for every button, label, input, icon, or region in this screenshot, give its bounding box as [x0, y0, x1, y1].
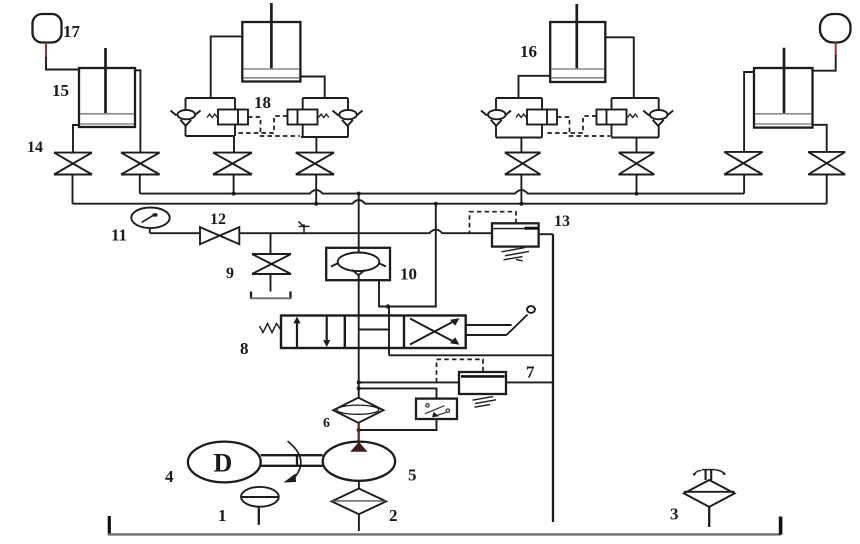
node junctions on main line — [357, 380, 361, 384]
gauge 11 needle — [142, 215, 154, 222]
wire leg 18R — [315, 137, 317, 153]
wire pressure switch top branch — [359, 388, 437, 398]
valve 8 spring — [260, 324, 282, 333]
valve below 16L (shut-off) — [505, 153, 541, 175]
wire 18R leg crossing upper manifold to lower manifold — [315, 175, 317, 204]
wire below 14b — [139, 175, 141, 194]
wire cylinder right port to 18R — [300, 77, 324, 99]
svg-text:2: 2 — [389, 506, 398, 525]
cylinder 16 piston rod — [575, 4, 578, 69]
tank bottom — [108, 533, 781, 535]
wire right cylinder left port — [744, 72, 754, 152]
wire gauge stem — [149, 228, 151, 233]
cylinder 15 piston — [80, 113, 134, 115]
valve below right cylinder left (shut-off) — [724, 152, 762, 175]
cylinder 15 piston rod — [104, 48, 107, 114]
node junction on bypass jog — [386, 304, 390, 308]
valve 8 lever — [466, 315, 528, 336]
wire upper manifold (rod-side) with jump-overs at x=316 and x=521 — [140, 190, 744, 194]
svg-text:17: 17 — [63, 22, 81, 41]
relief valve 7 box — [459, 372, 506, 394]
right cylinder piston — [755, 113, 812, 115]
wire cylinder left port to 18L — [211, 36, 243, 98]
valve 8 right cell crossed arrows — [410, 319, 456, 345]
accumulator (top right) — [820, 14, 851, 43]
counterbalance assembly 18 right: frame — [301, 98, 348, 137]
svg-text:16: 16 — [520, 42, 537, 61]
shaft motor-pump — [261, 455, 323, 466]
valve 8 centre cell connector — [359, 329, 389, 331]
svg-text:D: D — [214, 449, 233, 478]
wire below 14a — [72, 175, 74, 204]
wire stem of 1 — [258, 507, 260, 525]
throttle valve 18L box — [218, 110, 248, 125]
wire 16L leg crossing upper manifold to lower manifold — [520, 175, 522, 204]
cylinder 15 — [79, 68, 135, 127]
valve 14a (shut-off) — [54, 153, 92, 175]
svg-text:15: 15 — [52, 81, 69, 100]
wire leg 16R — [636, 138, 638, 153]
cylinder (top right) — [754, 68, 813, 128]
tank symbol below 9 — [251, 292, 291, 299]
suction filter 2 — [332, 489, 386, 515]
svg-text:12: 12 — [210, 211, 226, 228]
check valve 10 box — [326, 248, 390, 280]
wire cylinder 16 right port — [605, 37, 634, 98]
throttle valve 16R box — [597, 110, 627, 125]
svg-text:3: 3 — [670, 505, 679, 524]
check valve 16L — [481, 111, 511, 116]
wire filter 6 to pump 5 — [358, 423, 360, 443]
cylinder 16 piston — [551, 68, 604, 70]
check valve 18L — [171, 111, 201, 116]
svg-text:18: 18 — [254, 93, 271, 112]
pressure switch box — [416, 399, 457, 419]
counterbalance assembly 16 right: frame — [612, 98, 659, 138]
cylinder (above 18) — [242, 22, 300, 82]
tank right wall — [779, 517, 783, 535]
pump 5 — [323, 442, 395, 481]
wire 18L leg to upper manifold — [233, 175, 235, 194]
wire cylinder 15 left port — [73, 125, 79, 153]
valve below right cylinder right (shut-off) — [808, 152, 845, 175]
svg-text:1: 1 — [218, 506, 227, 525]
svg-text:4: 4 — [165, 467, 174, 486]
valve 13 inner line — [492, 228, 539, 230]
wire filter 2 to tank — [358, 514, 360, 531]
wire right cylinder right port — [813, 125, 827, 152]
svg-text:7: 7 — [526, 363, 535, 382]
svg-text:11: 11 — [111, 226, 127, 245]
counterbalance assembly 18 left: frame — [186, 98, 236, 136]
pilot dashed lines 16 — [557, 117, 610, 136]
check valve 18R — [333, 111, 363, 116]
wire A-port line through valve (x=389) — [388, 307, 390, 356]
dashed pilot line of 7 — [437, 359, 484, 382]
svg-text:9: 9 — [226, 265, 234, 282]
cylinder 16 — [550, 22, 605, 82]
wire branch to relief valve 9 — [270, 233, 272, 254]
directional valve 8 body — [281, 316, 466, 349]
relief valve 9 (shut-off symbol) — [252, 254, 291, 274]
filter 6 diamond — [333, 398, 383, 423]
tank left wall — [108, 516, 111, 535]
pressure switch symbol — [425, 406, 445, 414]
wire accumulator 17 stem — [45, 43, 47, 59]
valve 13 spring — [502, 248, 530, 261]
wire below valve 9 — [270, 274, 272, 292]
wire gauge line right segment with jump-over at x=436 — [239, 230, 492, 234]
spring squiggle 18R — [319, 114, 329, 117]
wire line to relief valve 7 — [359, 381, 553, 383]
valve 14b (shut-off) — [121, 153, 160, 175]
valve 7 spring — [473, 397, 497, 408]
valve below 18R (shut-off) — [296, 153, 334, 175]
pump 5 outlet triangle — [350, 442, 367, 452]
wire right return line — [552, 234, 554, 522]
wire pump 5 to filter 2 — [358, 481, 360, 489]
wire bypass from box 10 bottom to lower manifold — [379, 204, 436, 307]
filter 6 inner ellipse — [337, 405, 379, 414]
valve 12 (shut-off bowtie) — [200, 227, 239, 244]
spring squiggle 16R — [628, 114, 638, 117]
cylinder piston rod — [270, 3, 273, 69]
svg-text:8: 8 — [240, 339, 249, 358]
node lower manifold junctions — [314, 202, 318, 206]
check valve 16R — [643, 111, 673, 116]
rotation arrow — [288, 441, 301, 478]
check valve 10 symbol — [338, 252, 380, 271]
valve 8 left cell arrows — [296, 322, 298, 347]
svg-text:13: 13 — [554, 213, 570, 230]
cylinder piston — [243, 68, 299, 70]
node upper manifold junctions — [232, 192, 236, 196]
svg-text:6: 6 — [323, 416, 330, 431]
level gauge 1 — [241, 487, 279, 507]
pilot dashed lines 18 — [248, 117, 300, 136]
wire right accumulator stem — [835, 43, 837, 57]
wire cylinder 15 right port — [135, 70, 140, 152]
right cylinder piston rod — [783, 48, 786, 114]
electric motor 4 — [188, 442, 261, 483]
wire breather 3 stem — [708, 507, 710, 527]
wire 16R leg to upper manifold — [636, 175, 638, 194]
vent mark on gauge line — [298, 222, 309, 234]
wire leg 16L — [520, 138, 522, 153]
counterbalance assembly 16 left: frame — [496, 98, 542, 138]
spring squiggle 18L — [207, 114, 217, 117]
wire to upper manifold right end — [743, 175, 745, 194]
spring squiggle 16L — [516, 114, 526, 117]
air breather 3 — [684, 480, 735, 507]
valve 7 inner bar — [461, 375, 505, 378]
accumulator 17 — [33, 14, 62, 43]
wire leg 18L — [233, 136, 235, 153]
wire gauge line left segment — [150, 232, 200, 234]
unloading valve 13 box — [492, 223, 539, 246]
wire to lower manifold right end — [826, 175, 828, 204]
breather 3 cap — [706, 470, 712, 480]
wire cylinder 16 left port — [519, 76, 551, 98]
wire pressure switch bottom branch — [359, 419, 437, 430]
valve below 18L (shut-off) — [213, 153, 252, 175]
wire T return from valve 8 to right return line — [389, 354, 553, 356]
dashed pilot line of 13 — [470, 212, 517, 233]
valve 13 inner arrow bar — [525, 227, 539, 230]
svg-text:14: 14 — [27, 139, 43, 156]
throttle valve 16L box — [527, 110, 557, 125]
wire main pressure line through valve 8 — [358, 274, 360, 348]
svg-text:10: 10 — [400, 265, 417, 284]
valve below 16R (shut-off) — [619, 153, 655, 175]
wire main pressure line upper — [358, 194, 360, 253]
wire lower manifold (piston-side) with jump-over at x=359 — [73, 200, 827, 204]
svg-text:5: 5 — [408, 466, 417, 485]
pressure gauge 11 — [131, 208, 169, 229]
wire main line valve8 to filter 6 — [358, 348, 360, 398]
wire valve 13 right to return line — [539, 233, 553, 235]
throttle valve 18R box — [288, 110, 318, 125]
